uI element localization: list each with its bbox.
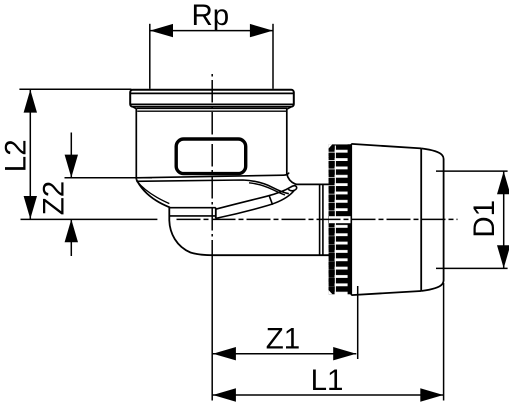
- press sleeve body: [351, 144, 421, 295]
- elbow crease upper: [216, 186, 297, 209]
- svg-text:L1: L1: [311, 364, 344, 397]
- L2 arrow bottom: [24, 196, 37, 219]
- D1 label: [468, 200, 501, 238]
- Z1 arrow right: [333, 347, 356, 360]
- Z2 arrow bottom (pointing up): [65, 219, 78, 242]
- sleeve end cap outline: [421, 148, 443, 291]
- Z2 label: [38, 181, 71, 215]
- Z2 arrow top (pointing down): [65, 155, 78, 178]
- L2 extension line top: [19, 88, 131, 90]
- D1 extension line top: [436, 170, 508, 172]
- sleeve end cap seam: [420, 148, 422, 291]
- elbow crease lower: [216, 190, 295, 219]
- horizontal centerline dash-dot: [177, 218, 458, 220]
- svg-text:Rp: Rp: [191, 0, 229, 32]
- Rp extension line right: [272, 24, 274, 89]
- vertical centerline dash-dot: [211, 74, 213, 255]
- svg-text:D1: D1: [468, 200, 501, 238]
- horizontal centerline solid left segment: [21, 218, 158, 220]
- skirt inner curve: [137, 182, 169, 204]
- svg-text:Z2: Z2: [38, 181, 71, 215]
- D1 arrow bottom: [497, 245, 509, 268]
- D1 arrow top: [497, 171, 509, 194]
- D1 dimension line: [503, 171, 505, 268]
- socket body walls: [136, 109, 286, 179]
- skirt outer curve and elbow bend: [136, 179, 329, 255]
- Z2 extension line: [65, 177, 153, 179]
- Rp extension line left: [149, 24, 151, 89]
- L1 arrow right: [420, 388, 443, 401]
- L2 arrow top: [24, 90, 37, 113]
- crease tick: [269, 196, 272, 205]
- Z1 arrow left: [213, 347, 236, 360]
- L1 dimension line: [212, 394, 443, 396]
- face plate rounded rectangle: [176, 139, 246, 174]
- Z1 extension line right: [357, 286, 359, 359]
- vertical extension line below fitting: [211, 255, 213, 400]
- Z1 dimension line: [212, 353, 356, 355]
- fillet socket to pipe: [287, 174, 329, 185]
- sleeve step band: [320, 184, 323, 255]
- socket bottom edges: [136, 173, 289, 195]
- Rp arrow left: [150, 24, 173, 37]
- L1 arrow left: [213, 388, 236, 401]
- Rp dimension line: [150, 30, 273, 32]
- threaded socket rim: [130, 90, 294, 111]
- L2 label: [0, 139, 33, 172]
- Z2 leader top: [70, 133, 72, 178]
- L1 extension line right: [443, 283, 445, 401]
- knurled grip ring: [329, 144, 352, 294]
- L2 dimension line: [29, 89, 31, 219]
- Rp arrow right: [250, 24, 273, 37]
- D1 extension line bottom: [436, 267, 508, 269]
- skirt lip: [169, 208, 216, 219]
- Z2 leader bottom: [70, 219, 72, 256]
- svg-text:L2: L2: [0, 139, 33, 172]
- svg-text:Z1: Z1: [266, 323, 300, 356]
